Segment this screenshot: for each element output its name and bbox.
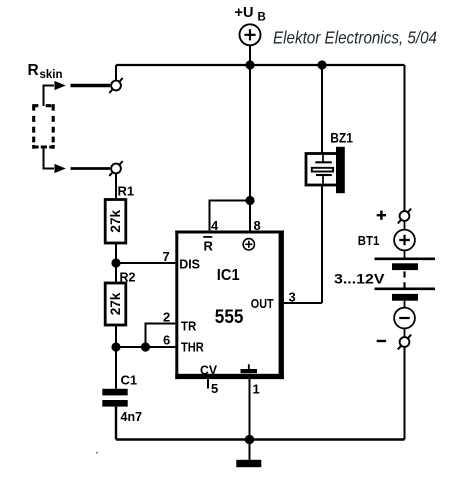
battery BT1 positive pole circle bbox=[394, 221, 415, 259]
wire top rail to battery bbox=[404, 65, 406, 211]
paper speck bbox=[96, 452, 98, 454]
terminal battery minus bbox=[398, 335, 411, 350]
arrow lower electrode bbox=[55, 164, 66, 173]
junction node THR bbox=[111, 342, 120, 351]
battery BT1 negative pole circle bbox=[394, 301, 415, 337]
svg-text:R: R bbox=[204, 239, 214, 254]
svg-text:5: 5 bbox=[211, 381, 218, 396]
wire R1 to R2 bbox=[115, 243, 117, 283]
junction top rail / pin 8 bbox=[245, 60, 254, 69]
svg-text:2: 2 bbox=[163, 310, 170, 325]
pin 5 CV stub bbox=[207, 379, 209, 388]
wire top rail to buzzer bbox=[321, 65, 323, 154]
svg-text:IC1: IC1 bbox=[217, 267, 240, 284]
IC1 internal reset Rbar bbox=[203, 237, 213, 254]
terminal battery plus bbox=[398, 209, 411, 224]
svg-text:BT1: BT1 bbox=[358, 234, 380, 248]
svg-text:3...12V: 3...12V bbox=[334, 271, 385, 286]
ground symbol bbox=[236, 440, 261, 468]
wire lower probe lead bbox=[71, 167, 111, 170]
wire pin 8 supply bbox=[249, 65, 251, 231]
wire top rail to upper terminal bbox=[115, 65, 117, 81]
wire node to pin 7 DIS bbox=[116, 262, 177, 264]
svg-text:C1: C1 bbox=[121, 373, 138, 388]
battery plus sign bbox=[377, 211, 386, 220]
supply terminal +UB bbox=[240, 24, 261, 65]
battery dashed link bbox=[403, 272, 405, 289]
junction top rail / buzzer branch bbox=[317, 60, 326, 69]
wire lower electrode lead bbox=[44, 146, 55, 169]
svg-text:27k: 27k bbox=[108, 292, 123, 315]
junction node DIS bbox=[111, 258, 120, 267]
svg-text:6: 6 bbox=[163, 333, 170, 348]
svg-text:THR: THR bbox=[181, 340, 204, 355]
svg-text:B: B bbox=[258, 11, 266, 23]
capacitor C1 bbox=[102, 389, 127, 407]
wire pin 3 OUT bbox=[283, 302, 322, 304]
svg-text:skin: skin bbox=[40, 69, 63, 81]
svg-text:Elektor Electronics, 5/04: Elektor Electronics, 5/04 bbox=[273, 28, 437, 48]
svg-text:27k: 27k bbox=[108, 210, 123, 233]
terminal lower probe bbox=[109, 161, 122, 176]
svg-text:DIS: DIS bbox=[179, 257, 200, 272]
svg-text:7: 7 bbox=[163, 249, 170, 264]
wire C1 to bottom rail bbox=[115, 407, 117, 440]
wire upper electrode lead bbox=[44, 86, 55, 107]
resistor R1 27k bbox=[105, 200, 126, 244]
junction pin4/pin8 bbox=[245, 196, 254, 205]
svg-text:3: 3 bbox=[289, 290, 296, 305]
IC1 internal ground symbol bbox=[241, 364, 258, 373]
svg-text:CV: CV bbox=[200, 364, 218, 378]
svg-text:BZ1: BZ1 bbox=[330, 130, 353, 146]
svg-text:R1: R1 bbox=[118, 184, 135, 199]
label +UB bbox=[235, 5, 266, 23]
svg-text:OUT: OUT bbox=[251, 296, 274, 311]
wire pin 1 to ground rail bbox=[249, 379, 251, 439]
junction bottom rail / pin 1 bbox=[245, 435, 254, 444]
wire top supply rail bbox=[116, 64, 405, 66]
junction TR branch bbox=[141, 342, 150, 351]
battery cell 2 bbox=[375, 289, 436, 301]
buzzer BZ1 bbox=[306, 147, 345, 193]
wire bottom ground rail bbox=[116, 438, 405, 441]
svg-text:8: 8 bbox=[254, 218, 261, 233]
wire node to pin 6 THR bbox=[116, 346, 177, 348]
wire battery to bottom rail bbox=[404, 347, 406, 440]
svg-text:1: 1 bbox=[253, 382, 260, 397]
wire buzzer to OUT bbox=[321, 185, 323, 303]
resistor R2 27k bbox=[105, 283, 126, 325]
svg-text:R: R bbox=[28, 62, 39, 79]
arrow upper electrode bbox=[55, 81, 66, 90]
svg-text:4: 4 bbox=[211, 218, 219, 233]
terminal upper probe bbox=[109, 78, 122, 93]
battery cell 1 bbox=[375, 259, 436, 270]
wire R2 to C1 bbox=[115, 325, 117, 389]
svg-text:+U: +U bbox=[235, 5, 254, 21]
wire pin 4 reset bbox=[210, 201, 251, 231]
svg-text:555: 555 bbox=[215, 307, 244, 328]
wire upper probe lead bbox=[71, 84, 111, 87]
IC1 555 box bbox=[175, 231, 284, 380]
wire lower terminal to R1 bbox=[115, 173, 117, 199]
resistor Rskin dashed electrode box bbox=[32, 104, 55, 149]
svg-text:4n7: 4n7 bbox=[121, 410, 143, 424]
svg-text:TR: TR bbox=[181, 319, 197, 334]
label Rskin bbox=[28, 62, 63, 81]
IC1 internal supply circle-plus bbox=[243, 239, 254, 250]
wire to pin 2 TR bbox=[146, 324, 177, 348]
battery minus sign bbox=[377, 340, 386, 342]
